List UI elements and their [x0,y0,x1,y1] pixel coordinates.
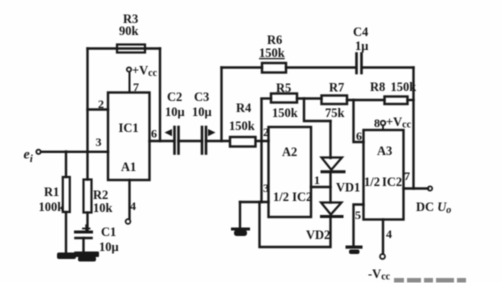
svg-text:7: 7 [404,169,410,183]
svg-text:2: 2 [263,125,269,139]
svg-text:8: 8 [374,116,380,130]
wire: A2 pin 3 to ground line [240,201,269,203]
diode VD1 [322,158,343,170]
capacitor C2 (plates) [173,127,176,154]
svg-text:10μ: 10μ [165,105,185,119]
svg-text:150k: 150k [391,80,417,94]
wire: diode column upper [329,121,331,158]
svg-text:R6: R6 [267,33,282,47]
wire: A3 pin 7 output [404,187,429,189]
svg-text:R7: R7 [329,81,344,95]
svg-text:R5: R5 [276,81,291,95]
svg-text:6: 6 [356,129,362,143]
wire: input e_i horizontal to pin 3 [41,151,108,153]
svg-text:R2: R2 [93,188,108,202]
svg-text:IC2: IC2 [382,175,402,189]
wire: C1 to ground [82,238,84,252]
wire: right feedback riser C4/R8 to output [412,68,414,189]
svg-text:4: 4 [386,227,392,241]
op-amp IC1 A1 (box) [108,93,150,181]
svg-text:7: 7 [133,80,139,94]
svg-text:4: 4 [130,199,136,213]
svg-text:DC Uo: DC Uo [416,200,451,216]
svg-text:C3: C3 [194,90,209,104]
svg-text:10μ: 10μ [192,105,212,119]
wire: A3 pin 5 to ground [354,205,364,247]
resistor R8 (box) [385,97,408,105]
wire: A3 pin 4 stem to -Vcc [382,220,384,254]
svg-text:VD1: VD1 [336,181,360,195]
wire: VD1 cathode to pin1 junction [329,172,331,203]
op-amp A2 1/2 IC2 (box) [269,127,312,217]
resistor R2 (box) [84,180,92,213]
wire: R7 to R8 [347,99,385,101]
node: output terminal circle [428,186,432,190]
capacitor C4 (plates) [355,54,358,74]
svg-text:75k: 75k [325,106,345,120]
wire: pin 4 stem of IC1 [128,180,130,219]
op-amp A3 1/2 IC2 (box) [364,130,404,220]
wire: R1 to ground [65,212,67,253]
wire: A2 pin 1 to diode junction [311,186,331,188]
ground (A2 pin 3) [231,228,250,231]
wire: dip junction to diode column [304,99,331,122]
resistor R1 (box) [63,177,70,212]
svg-text:150k: 150k [259,46,285,60]
resistor R6 (box) [262,63,286,73]
svg-text:1/2 IC2: 1/2 IC2 [273,190,312,204]
resistor R7 (box) [322,96,348,105]
wire: pin 6 output of IC1 [150,140,175,142]
svg-text:10k: 10k [93,201,113,215]
svg-text:A3: A3 [377,144,392,158]
svg-text:6: 6 [151,127,157,141]
wire: R3 feedback top horizontal [88,47,161,49]
svg-text:+Vcc: +Vcc [386,115,412,131]
wire: R6 top line left [222,66,263,68]
wire: R8 right lead [408,99,414,101]
node: -Vcc open circle [380,254,385,259]
svg-text:+Vcc: +Vcc [132,64,158,80]
capacitor C1 (plates) [76,231,92,234]
wire: pin 2 horizontal [88,108,109,110]
svg-text:2: 2 [98,97,104,111]
wire: feedback right riser to pin6 line [159,49,161,142]
scan artifact bottom-right [394,278,466,283]
wire: junction riser to R1 [65,152,67,178]
svg-text:VD2: VD2 [306,228,330,242]
power +Vcc terminal of IC1 [127,67,131,71]
ground (under C1) [74,252,99,258]
svg-text:3: 3 [96,135,102,149]
ground (under R1) [57,253,76,260]
svg-text:90k: 90k [119,24,139,38]
svg-text:150k: 150k [272,106,298,120]
svg-text:R4: R4 [236,101,252,115]
wire: R5 left lead [262,97,272,99]
svg-text:C4: C4 [353,25,369,39]
node: pin 4 open circle [126,219,131,224]
wire: R2 to C1 [86,213,88,231]
ground (A3 pin 5) [346,246,363,249]
wire: bottom loop VD2 return [260,202,331,247]
wire: ground stem A2 [239,202,241,228]
wire: C2 to C3 [179,140,203,142]
svg-text:10μ: 10μ [99,240,119,254]
wire: R6 left riser [220,68,222,142]
power +Vcc terminal of A3 (pin 8) [382,126,384,131]
svg-text:R1: R1 [44,185,59,199]
wire: R6 to C4 [286,66,356,68]
svg-text:-Vcc: -Vcc [368,267,391,283]
svg-text:1/2: 1/2 [364,175,380,189]
resistor R3 (box) [117,45,145,53]
node: input terminal circle [36,150,40,154]
capacitor C2 polarity arrow [165,129,173,136]
svg-text:5: 5 [355,208,361,222]
svg-text:1μ: 1μ [355,39,368,53]
wire: C4 to right riser [362,66,414,68]
svg-text:ei: ei [24,148,34,166]
diode VD2 [321,203,342,215]
svg-text:C1: C1 [101,225,116,239]
svg-text:3: 3 [263,181,269,195]
wire: R5 to R7 [297,97,322,99]
capacitor C3 (plates) [201,127,204,154]
capacitor C3 polarity arrow [208,129,216,136]
svg-text:C2: C2 [167,90,182,104]
wire: riser R5-left / A2 input column [260,99,262,202]
wire: C3 to A2 pin 2 (through R4) [206,140,269,142]
svg-text:A1: A1 [121,160,136,174]
wire: riser R3/pin2/R2 vertical [86,49,88,180]
wire: junction riser to A3 pin 6 [354,100,364,142]
svg-text:R8: R8 [370,80,385,94]
svg-text:A2: A2 [282,145,297,159]
svg-text:100k: 100k [39,200,65,214]
resistor R5 (box) [271,94,297,103]
resistor R4 (box) [230,137,256,147]
svg-text:1: 1 [314,173,320,187]
capacitor C1 polarity mark [83,225,90,231]
svg-text:150k: 150k [229,119,255,133]
svg-text:IC1: IC1 [119,121,139,135]
